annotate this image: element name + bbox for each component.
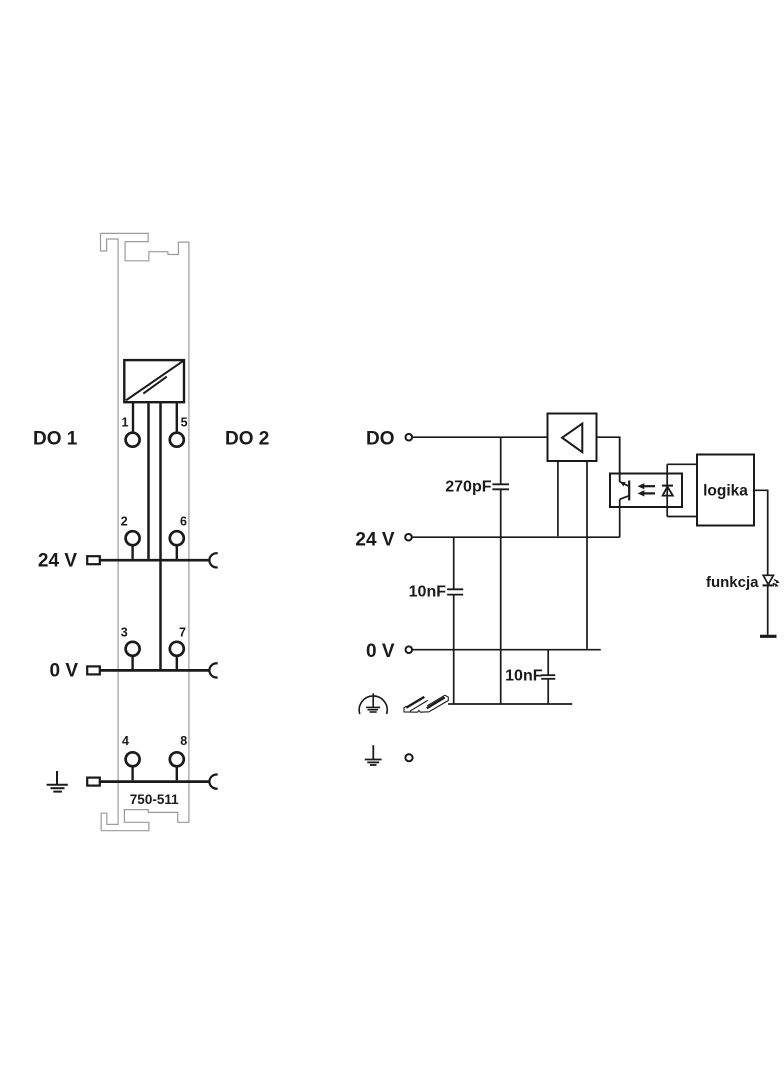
wire LED loop bottom (667, 516, 697, 518)
wire logika output (754, 490, 768, 575)
terminal 7 (170, 625, 186, 669)
wire vertical DO to rail (500, 437, 502, 704)
wire lead box to terminal 1 (132, 402, 134, 433)
DIN rail icon (404, 695, 448, 712)
label 750-511 (130, 792, 179, 807)
svg-text:DO 2: DO 2 (225, 429, 269, 450)
svg-text:4: 4 (122, 734, 129, 748)
node DO terminal circle (406, 434, 413, 441)
optocoupler box (610, 474, 682, 508)
label 24 V right (355, 530, 394, 551)
logika box (697, 455, 754, 526)
svg-text:3: 3 (121, 625, 128, 639)
svg-text:logika: logika (703, 482, 748, 499)
label DO 1 (33, 429, 78, 450)
terminal 2 (121, 514, 140, 559)
capacitor 10nF lower (505, 668, 555, 685)
svg-text:DO: DO (366, 429, 395, 450)
24V rail (100, 559, 210, 562)
wire bus right (159, 402, 162, 669)
wire driver lead to 24V (557, 461, 559, 536)
isolation box U1 (124, 360, 184, 402)
capacitor 270pF (445, 478, 509, 495)
24V square terminal (87, 556, 100, 564)
0V rail (100, 669, 210, 672)
terminal 5 (170, 415, 188, 446)
label 0 V right (366, 641, 395, 662)
svg-text:7: 7 (179, 625, 186, 639)
ground symbol module left (47, 771, 68, 792)
svg-text:2: 2 (121, 514, 128, 528)
svg-text:24 V: 24 V (38, 551, 77, 572)
label DO 2 (225, 429, 269, 450)
0V square terminal (87, 666, 100, 674)
svg-text:10nF: 10nF (505, 668, 543, 685)
capacitor 10nF upper (409, 584, 464, 601)
wire vertical 24V to rail (453, 537, 455, 704)
light arrows optocoupler (638, 483, 655, 496)
terminal 3 (121, 625, 140, 669)
terminal 4 (122, 734, 140, 780)
label 24 V left (38, 551, 77, 572)
svg-text:0 V: 0 V (366, 641, 395, 662)
wire 0V line (412, 649, 601, 651)
ground square terminal (87, 778, 100, 786)
0V rail end arc (209, 663, 217, 677)
svg-text:1: 1 (122, 415, 129, 429)
terminal 1 (122, 415, 140, 446)
ground rail (100, 780, 210, 783)
wire bus left (147, 402, 150, 559)
ground rail end arc (209, 774, 217, 788)
svg-text:0 V: 0 V (49, 661, 78, 682)
LED funkcja (763, 575, 780, 635)
node unconnected terminal circle (405, 754, 412, 761)
svg-text:8: 8 (180, 734, 187, 748)
svg-text:10nF: 10nF (409, 584, 447, 601)
wire driver lead to 0V (586, 461, 588, 649)
svg-text:270pF: 270pF (445, 478, 491, 495)
op-amp driver box (548, 414, 597, 462)
label 0 V left (49, 661, 78, 682)
earth ground symbol bottom (365, 745, 382, 765)
module outline 750-511 housing (101, 233, 189, 830)
svg-text:funkcja: funkcja (706, 574, 759, 591)
wire driver output (597, 437, 620, 482)
svg-text:5: 5 (181, 415, 188, 429)
svg-text:6: 6 (180, 514, 187, 528)
terminal 8 (170, 734, 188, 780)
svg-text:24 V: 24 V (355, 530, 394, 551)
wire DO line (412, 436, 547, 438)
ground bar funkcja (760, 635, 777, 638)
terminal 6 (170, 514, 187, 559)
chassis ground symbol (359, 693, 387, 714)
node 24V terminal circle (405, 534, 412, 541)
wire 24V line (412, 536, 620, 538)
svg-text:750-511: 750-511 (130, 792, 179, 807)
label funkcja (706, 574, 759, 591)
label DO (366, 429, 395, 450)
svg-text:DO 1: DO 1 (33, 429, 78, 450)
LED D1 in optocoupler (662, 464, 673, 516)
node 0V terminal circle (406, 646, 413, 653)
24V rail end arc (209, 553, 217, 567)
phototransistor Q1 (620, 437, 630, 537)
wire lead box to terminal 5 (176, 402, 178, 433)
wire rail line (448, 703, 572, 705)
wire vertical 0V to rail (547, 650, 549, 704)
wire LED loop top (667, 463, 697, 465)
